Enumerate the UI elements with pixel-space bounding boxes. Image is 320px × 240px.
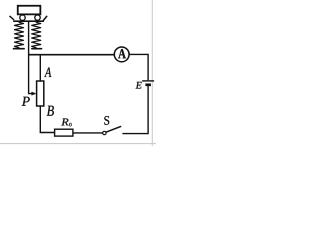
wire R0 to rheostat bottom xyxy=(40,106,54,133)
label A (rheostat top terminal) xyxy=(44,68,51,77)
platform hatch right xyxy=(43,16,47,21)
wire from platform down to slider P xyxy=(29,22,33,94)
block M (object on spring platform) xyxy=(18,6,41,15)
slider arrowhead into rheostat xyxy=(32,92,36,95)
switch S pivot xyxy=(103,131,106,134)
switch S blade xyxy=(106,126,121,132)
roller left xyxy=(20,15,25,20)
label R0 xyxy=(61,119,68,126)
platform hatch left xyxy=(10,16,15,20)
spring right xyxy=(32,22,42,49)
wire switch to R0 xyxy=(73,132,103,134)
label E xyxy=(136,82,142,89)
wire ammeter to top-right corner down to battery xyxy=(129,54,148,80)
platform surface line xyxy=(13,20,44,22)
label P xyxy=(22,97,30,106)
rheostat (slide-wire resistor) between A and B xyxy=(37,81,44,106)
wire top horizontal to ammeter xyxy=(29,54,115,56)
ammeter xyxy=(114,47,129,62)
wire battery to bottom-right corner to switch xyxy=(122,86,148,134)
label B (rheostat bottom terminal) xyxy=(47,106,54,116)
resistor R0 xyxy=(55,129,73,136)
spring left xyxy=(14,22,25,49)
wire rheostat top lead xyxy=(39,55,41,81)
label S xyxy=(104,116,109,125)
battery E plates xyxy=(142,80,154,82)
roller right xyxy=(35,15,40,20)
